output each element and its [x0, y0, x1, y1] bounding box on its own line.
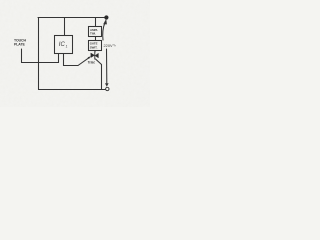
wire triac to bottom rail	[96, 59, 102, 90]
svg-text:220V: 220V	[104, 43, 113, 48]
AC source upper arrow curve	[103, 23, 105, 40]
wire top rail	[38, 17, 108, 19]
wire block1 top lead	[95, 18, 97, 27]
svg-text:1: 1	[66, 45, 68, 49]
AC source lower lead	[106, 49, 108, 83]
node AC junction	[104, 15, 108, 19]
svg-text:SWIT.: SWIT.	[90, 45, 98, 49]
triac Q1	[91, 52, 99, 60]
block gate/switch	[89, 41, 102, 51]
svg-text:Triac: Triac	[88, 60, 96, 64]
touch plate lead	[21, 49, 23, 63]
svg-text:TOUCH: TOUCH	[14, 38, 26, 42]
svg-text:∿: ∿	[113, 42, 116, 47]
svg-text:TIM.: TIM.	[90, 32, 96, 36]
wire left rail	[38, 18, 40, 90]
IC U1	[55, 36, 73, 54]
svg-text:IC: IC	[59, 42, 66, 48]
gate arrow to triac	[78, 58, 89, 66]
wire IC output lead	[64, 54, 79, 66]
block amplifier/timer	[89, 27, 102, 37]
wire between blocks	[95, 37, 97, 41]
wire block2 to triac	[94, 51, 96, 53]
wire bottom rail	[39, 89, 106, 91]
wire IC pin lead to touch plate	[22, 54, 59, 63]
svg-text:PLATE: PLATE	[14, 43, 25, 47]
wire IC top lead	[64, 18, 66, 36]
terminal circle	[106, 87, 109, 90]
